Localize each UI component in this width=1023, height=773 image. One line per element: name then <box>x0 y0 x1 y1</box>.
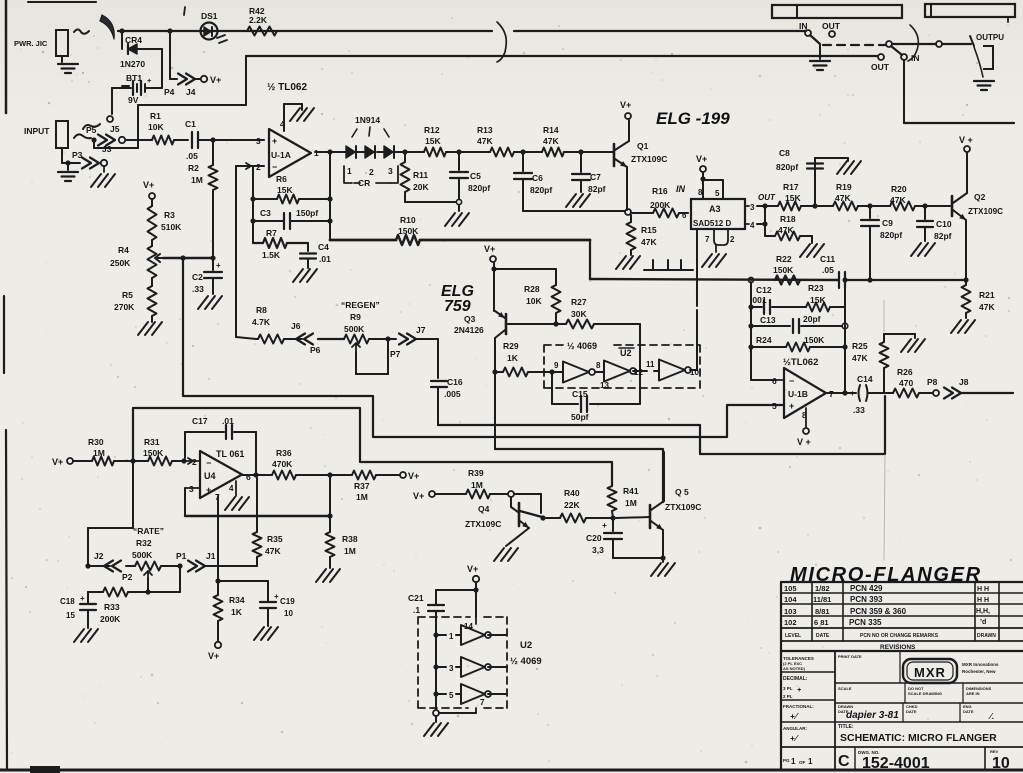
svg-text:8: 8 <box>596 361 601 370</box>
svg-text:R11: R11 <box>413 170 428 180</box>
svg-text:C12: C12 <box>756 285 772 295</box>
wire C16 to C14 node <box>438 396 885 454</box>
svg-text:Q4: Q4 <box>478 504 490 514</box>
svg-text:C13: C13 <box>760 315 776 325</box>
resistor R22 150K <box>775 276 800 285</box>
svg-text:R36: R36 <box>276 448 292 458</box>
resistor R26 470 <box>893 389 919 398</box>
svg-text:H H: H H <box>977 586 989 593</box>
svg-text:C17: C17 <box>192 416 208 426</box>
svg-text:1: 1 <box>347 166 352 176</box>
svg-text:−: − <box>272 162 277 172</box>
svg-text:.005: .005 <box>444 389 461 399</box>
svg-text:−: − <box>789 376 794 386</box>
ground below power jack <box>61 56 63 62</box>
wire Q3 base row <box>508 323 566 325</box>
svg-text:PCN NO OR CHANGE REMARKS: PCN NO OR CHANGE REMARKS <box>860 633 939 639</box>
connector P8-J8 output <box>933 390 939 396</box>
svg-text:A3: A3 <box>709 204 721 214</box>
svg-text:105: 105 <box>784 584 797 593</box>
resistor R6 15K <box>253 198 277 200</box>
svg-text:SCHEMATIC: MICRO FLANGER: SCHEMATIC: MICRO FLANGER <box>840 732 997 744</box>
svg-text:H,H,: H,H, <box>976 608 990 615</box>
svg-text:+: + <box>602 520 607 530</box>
ground below R18 <box>800 244 810 257</box>
svg-text:R19: R19 <box>836 182 852 192</box>
capacitor C18 15 electrolytic <box>87 592 89 603</box>
svg-text:6: 6 <box>682 211 687 220</box>
capacitor C20 3.3 electrolytic <box>612 518 614 531</box>
svg-text:“RATE”: “RATE” <box>133 526 164 536</box>
resistor R41 1M <box>608 486 617 511</box>
svg-text:15K: 15K <box>785 193 801 203</box>
scan curl artifact top-middle <box>497 22 506 62</box>
op-amp U4 TL061 <box>200 451 242 498</box>
svg-text:CR4: CR4 <box>125 35 142 45</box>
svg-text:PCN 429: PCN 429 <box>850 584 883 593</box>
svg-text:+: + <box>147 76 152 85</box>
wire feedback left column <box>252 166 254 243</box>
footswitch bar right <box>925 4 1015 17</box>
transistor Q2 ZTX109C <box>951 196 954 216</box>
capacitor C9 820pf <box>869 206 871 218</box>
clock tick marks handwritten <box>644 260 693 270</box>
svg-text:H H: H H <box>977 597 989 604</box>
page bottom border <box>0 769 1023 772</box>
node DS1 branch junction <box>167 28 172 33</box>
ground below R21 <box>951 320 961 333</box>
svg-text:4: 4 <box>750 221 755 230</box>
svg-text:R39: R39 <box>468 468 484 478</box>
capacitor C12 .001 <box>751 306 762 308</box>
svg-text:U-1B: U-1B <box>788 389 808 399</box>
resistor R34 1K <box>217 581 219 595</box>
capacitor C19 10 electrolytic <box>267 581 269 601</box>
svg-text:REV: REV <box>990 749 999 754</box>
svg-text:820pf: 820pf <box>880 230 902 240</box>
svg-text:103: 103 <box>784 607 797 616</box>
svg-text:IN: IN <box>676 184 686 194</box>
svg-text:V+: V+ <box>210 75 221 85</box>
ground below R38 <box>316 569 326 582</box>
resistor R29 1K <box>495 371 503 373</box>
svg-text:TL 061: TL 061 <box>216 449 244 459</box>
svg-text:R23: R23 <box>808 283 824 293</box>
svg-text:ARE IN: ARE IN <box>966 691 980 696</box>
svg-text:DATE: DATE <box>816 633 830 639</box>
svg-text:Q2: Q2 <box>974 192 986 202</box>
node battery/CR4 junction <box>119 28 124 33</box>
svg-text:R21: R21 <box>979 290 995 300</box>
svg-text:OF: OF <box>799 760 806 765</box>
resistor R20 47K <box>873 205 890 207</box>
svg-text:47K: 47K <box>543 136 559 146</box>
svg-text:200K: 200K <box>100 614 121 624</box>
svg-text:102: 102 <box>784 618 797 627</box>
svg-text:R25: R25 <box>852 341 868 351</box>
svg-text:3,3: 3,3 <box>592 545 604 555</box>
svg-text:½ TL062: ½ TL062 <box>267 82 307 93</box>
svg-text:C5: C5 <box>470 171 481 181</box>
svg-text:470K: 470K <box>272 459 293 469</box>
svg-text:P5: P5 <box>86 125 97 135</box>
switch pole ground <box>819 45 821 59</box>
ground at C8 <box>837 161 847 174</box>
svg-text:C19: C19 <box>280 597 295 606</box>
resistor R24 150K <box>751 346 786 348</box>
svg-text:PCN 335: PCN 335 <box>849 618 882 627</box>
svg-text:50pf: 50pf <box>571 412 589 422</box>
svg-text:BT1: BT1 <box>126 73 142 83</box>
node diode/R11 junction <box>402 149 407 154</box>
svg-text:510K: 510K <box>161 222 182 232</box>
svg-text:10: 10 <box>690 368 699 377</box>
wire R4 wiper row <box>163 257 213 260</box>
footswitch bar left <box>772 5 902 18</box>
svg-text:V+: V+ <box>143 180 154 190</box>
svg-text:V +: V + <box>959 135 973 145</box>
svg-text:P3: P3 <box>72 150 83 160</box>
svg-text:R35: R35 <box>267 534 283 544</box>
svg-text:R22: R22 <box>776 254 792 264</box>
R9 wiper loop <box>352 343 360 352</box>
capacitor C1 .05 <box>191 132 193 148</box>
resistor R8 4.7K <box>256 338 258 340</box>
svg-text:R26: R26 <box>897 367 913 377</box>
wire to R13 <box>459 151 490 153</box>
svg-text:DRAWN: DRAWN <box>977 633 996 639</box>
resistor R15 47K <box>630 215 632 222</box>
wire Q3 collector to Q5 collector <box>495 449 663 502</box>
svg-text:22K: 22K <box>564 500 580 510</box>
resistor R42 2.2K <box>247 27 277 36</box>
svg-text:2: 2 <box>192 457 197 467</box>
resistor R3 510K <box>151 199 153 206</box>
svg-text:1: 1 <box>791 757 796 766</box>
svg-text:R30: R30 <box>88 437 104 447</box>
svg-text:20pf: 20pf <box>803 314 821 324</box>
svg-text:10K: 10K <box>148 122 164 132</box>
wire C21 top <box>436 589 476 591</box>
svg-text:1M: 1M <box>93 448 105 458</box>
wire output row <box>345 151 364 153</box>
resistor R13 47K <box>490 148 514 157</box>
wire pin3 row to R38 <box>185 515 330 517</box>
svg-text:C16: C16 <box>447 377 463 387</box>
resistor R25 47K <box>883 368 885 393</box>
svg-text:C: C <box>838 753 850 770</box>
capacitor C2 .33 electrolytic <box>212 258 214 270</box>
wire battery minus to jack contact <box>112 87 125 89</box>
svg-text:V+: V+ <box>52 457 63 467</box>
inverter U2f pin5 <box>436 693 446 695</box>
svg-text:Rochester, New: Rochester, New <box>962 669 996 674</box>
svg-text:R33: R33 <box>104 602 120 612</box>
resistor R11 20K <box>404 152 406 162</box>
svg-text:OUT: OUT <box>758 193 776 202</box>
scan curl artifact top-left <box>100 15 114 39</box>
svg-text:1M: 1M <box>356 492 368 502</box>
ground below C4 <box>293 269 303 282</box>
MXR logo <box>903 659 957 683</box>
svg-text:V+: V+ <box>620 100 631 110</box>
svg-text:R16: R16 <box>652 186 668 196</box>
svg-text:4: 4 <box>229 484 234 493</box>
node Q3 collector R29 tap <box>492 369 497 374</box>
svg-text:1K: 1K <box>507 353 519 363</box>
resistor R31 150K <box>148 457 172 466</box>
capacitor C4 .01 <box>307 243 309 251</box>
svg-text:.33: .33 <box>853 405 865 415</box>
wire V+ to R28 <box>491 266 496 271</box>
diode CR2 1N914 <box>365 146 374 158</box>
svg-text:C15: C15 <box>572 389 588 399</box>
svg-text:820pf: 820pf <box>468 183 490 193</box>
svg-text:V+: V+ <box>413 491 424 501</box>
svg-text:15K: 15K <box>277 185 293 195</box>
svg-text:+: + <box>797 687 801 694</box>
revision table <box>781 581 1023 583</box>
svg-text:ZTX109C: ZTX109C <box>968 207 1003 216</box>
svg-text:DECIMAL:: DECIMAL: <box>783 676 808 682</box>
connector P5-J5 <box>98 135 107 146</box>
svg-text:R12: R12 <box>424 125 440 135</box>
wire V+ rail lower <box>246 55 878 57</box>
wire U2 input bus <box>435 612 437 700</box>
svg-text:V +: V + <box>797 437 811 447</box>
svg-text:SCALE: SCALE <box>838 686 852 691</box>
resistor R38 1M <box>329 475 331 516</box>
svg-text:150K: 150K <box>143 448 164 458</box>
svg-text:V+: V+ <box>696 154 707 164</box>
svg-text:.001: .001 <box>750 295 767 305</box>
svg-text:47K: 47K <box>477 136 493 146</box>
diode CR4 1N270 <box>121 31 123 49</box>
svg-text:J5: J5 <box>110 124 120 134</box>
wire C20 to Q5 emitter <box>613 557 663 559</box>
IC A3 SAD512 BBD <box>691 199 745 229</box>
capacitor C6 820pf <box>522 152 524 171</box>
svg-text:V+: V+ <box>408 471 419 481</box>
IC U2 4069 dashed box lower <box>418 617 507 708</box>
resistor R33 200K <box>103 588 128 597</box>
svg-text:ZTX109C: ZTX109C <box>465 519 501 529</box>
svg-text:10K: 10K <box>526 296 542 306</box>
wire R11 to C5 bottom <box>405 201 456 203</box>
svg-text:250K: 250K <box>110 258 131 268</box>
svg-text:ZTX109C: ZTX109C <box>631 154 667 164</box>
svg-text:1: 1 <box>449 632 454 641</box>
svg-text:R6: R6 <box>276 174 287 184</box>
svg-text:3: 3 <box>189 484 194 494</box>
svg-text:.05: .05 <box>186 151 198 161</box>
inverter U2e pin3 <box>436 666 446 668</box>
svg-text:1K: 1K <box>231 607 243 617</box>
svg-text:3: 3 <box>449 664 454 673</box>
resistor R14 47K <box>542 148 564 157</box>
svg-text:½ 4069: ½ 4069 <box>510 656 542 667</box>
svg-text:P7: P7 <box>390 349 401 359</box>
op-amp U1A 1/2 TL062 <box>269 129 311 177</box>
resistor R27 30K <box>566 320 594 329</box>
wire C12 bank right column <box>844 282 846 391</box>
inverter U2d pin1 <box>436 634 446 636</box>
svg-text:1N914: 1N914 <box>355 115 380 125</box>
ground below C19 <box>254 627 264 640</box>
svg-text:P6: P6 <box>310 345 321 355</box>
svg-text:IN: IN <box>911 53 920 63</box>
resistor R19 47K <box>818 205 833 207</box>
resistor R18 47K <box>764 224 766 236</box>
svg-text:PCN 359 & 360: PCN 359 & 360 <box>850 607 907 616</box>
svg-text:R14: R14 <box>543 125 559 135</box>
capacitor C10 82pf <box>924 206 926 219</box>
svg-text:C11: C11 <box>820 254 835 264</box>
svg-text:OUTPU: OUTPU <box>976 33 1004 42</box>
svg-text:759: 759 <box>444 298 471 315</box>
svg-text:R18: R18 <box>780 214 796 224</box>
svg-text:R15: R15 <box>641 225 657 235</box>
svg-text:J4: J4 <box>186 87 196 97</box>
svg-text:OUT: OUT <box>822 21 841 31</box>
svg-text:15K: 15K <box>425 136 441 146</box>
svg-text:15K: 15K <box>810 295 826 305</box>
svg-text:C21: C21 <box>408 593 424 603</box>
resistor R28 10K <box>552 285 561 313</box>
resistor R35 47K <box>256 478 258 532</box>
svg-text:1M: 1M <box>471 480 483 490</box>
svg-text:1M: 1M <box>344 546 356 556</box>
wire U1A output column <box>329 152 331 240</box>
svg-text:LEVEL: LEVEL <box>785 633 801 639</box>
svg-text:6: 6 <box>246 472 251 482</box>
svg-text:104: 104 <box>784 595 797 604</box>
svg-text:PG: PG <box>783 758 790 763</box>
svg-text:C6: C6 <box>532 173 543 183</box>
wire V+ to P4 connector <box>169 31 171 79</box>
svg-text:47K: 47K <box>979 302 995 312</box>
svg-text:R9: R9 <box>350 312 361 322</box>
ground below R15 <box>616 256 626 269</box>
svg-text:5: 5 <box>715 189 720 198</box>
capacitor C13 20pf <box>751 325 790 327</box>
wire to U1A pin3 <box>213 139 264 141</box>
wire to U4 pin2 <box>184 458 193 464</box>
wire bias line R4 wiper to U1B pin5 <box>183 258 782 437</box>
svg-text:+: + <box>274 592 279 601</box>
svg-text:C7: C7 <box>590 172 601 182</box>
ground below C5 <box>458 205 460 211</box>
svg-text:+: + <box>272 136 277 146</box>
svg-text:150K: 150K <box>773 265 794 275</box>
wire CR4 to battery plus <box>161 49 163 88</box>
svg-text:47K: 47K <box>778 225 794 235</box>
resistor R12 15K <box>424 148 446 157</box>
svg-text:U2: U2 <box>620 348 632 358</box>
svg-text:2: 2 <box>369 167 374 177</box>
svg-text:J3: J3 <box>102 144 112 154</box>
svg-text:R5: R5 <box>122 290 133 300</box>
svg-text:INPUT: INPUT <box>24 126 50 136</box>
ground below Q4 <box>494 548 504 561</box>
svg-text:ELG -199: ELG -199 <box>656 109 730 128</box>
input jack INPUT <box>56 121 68 148</box>
A3 pin4 wire <box>745 223 749 225</box>
capacitor C16 .005 <box>437 339 439 378</box>
wire switch to output jack <box>892 43 936 45</box>
svg-text:3: 3 <box>750 203 755 212</box>
wire top V+ rail <box>118 30 492 32</box>
resistor R39 1M <box>466 490 490 499</box>
svg-text:DATE: DATE <box>906 709 917 714</box>
svg-text:C18: C18 <box>60 597 75 606</box>
svg-text:R29: R29 <box>503 341 519 351</box>
power jack PWR.JIC <box>56 30 68 56</box>
capacitor C7 82pf <box>580 152 582 172</box>
svg-text:1M: 1M <box>625 498 637 508</box>
svg-text:AS NOTED): AS NOTED) <box>783 666 806 671</box>
clock line from A3 to U2 <box>696 229 698 306</box>
svg-text:SCALE DRAWING: SCALE DRAWING <box>908 691 942 696</box>
svg-text:470: 470 <box>899 378 913 388</box>
svg-text:DATE: DATE <box>963 709 974 714</box>
svg-text:ANGULAR:: ANGULAR: <box>783 726 807 731</box>
svg-text:J2: J2 <box>94 551 104 561</box>
ground at R25 <box>901 339 911 352</box>
capacitor C15 50pf <box>551 372 553 404</box>
svg-text:R1: R1 <box>150 111 161 121</box>
svg-text:Q3: Q3 <box>464 314 476 324</box>
svg-text:½TL062: ½TL062 <box>783 357 818 368</box>
IC U2 4069 dashed box <box>544 345 700 388</box>
svg-text:P4: P4 <box>164 87 175 97</box>
resistor R40 22K <box>546 517 560 519</box>
svg-text:8/81: 8/81 <box>815 607 830 616</box>
wire C12 bank left column <box>750 282 752 380</box>
ground below U2 <box>424 723 434 736</box>
resistor R21 47K <box>963 277 968 282</box>
svg-text:R37: R37 <box>354 481 370 491</box>
svg-text:1/82: 1/82 <box>815 584 830 593</box>
svg-text:+: + <box>850 389 855 398</box>
svg-text:IN: IN <box>799 21 808 31</box>
svg-text:C8: C8 <box>779 148 790 158</box>
svg-text:R24: R24 <box>756 335 772 345</box>
svg-text:U4: U4 <box>204 471 216 481</box>
svg-text:11: 11 <box>646 360 655 369</box>
svg-text:13: 13 <box>600 381 609 390</box>
svg-text:8: 8 <box>698 188 703 197</box>
svg-text:J8: J8 <box>959 377 969 387</box>
jack sleeve to P3 ground <box>61 148 63 163</box>
svg-text:.01: .01 <box>222 416 234 426</box>
svg-text:82pf: 82pf <box>588 184 606 194</box>
ground below C18 <box>74 629 84 642</box>
svg-text:J1: J1 <box>206 551 216 561</box>
node P5 <box>91 137 96 142</box>
svg-text:P1: P1 <box>176 551 187 561</box>
svg-text:R38: R38 <box>342 534 358 544</box>
svg-text:R2: R2 <box>188 163 199 173</box>
svg-text:REVISIONS: REVISIONS <box>880 644 916 651</box>
capacitor C5 820pf <box>458 152 460 170</box>
svg-text:C14: C14 <box>857 374 873 384</box>
svg-text:J7: J7 <box>416 325 426 335</box>
svg-text:R8: R8 <box>256 305 267 315</box>
svg-text:MXR Innovations: MXR Innovations <box>962 662 999 667</box>
svg-text:.1: .1 <box>413 605 420 615</box>
wire R27 to C15 <box>639 324 641 404</box>
